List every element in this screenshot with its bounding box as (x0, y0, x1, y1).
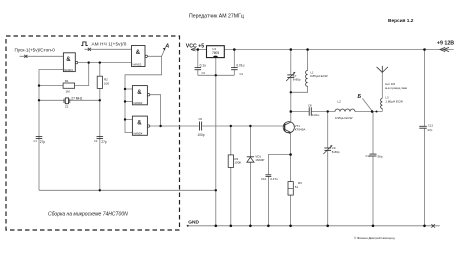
wire: VD1 vertical (249, 126, 251, 157)
capacitor C10 emitter bypass (261, 175, 278, 181)
svg-text:27p: 27p (101, 140, 107, 144)
resistor R2 (97, 76, 109, 88)
inductor L2 (335, 109, 355, 111)
svg-text:NAND2: NAND2 (133, 62, 142, 66)
svg-text:1N60P: 1N60P (255, 158, 264, 162)
svg-text:0.47u: 0.47u (270, 177, 278, 181)
wire: emitter vertical (290, 133, 292, 182)
svg-text:C2: C2 (94, 139, 98, 143)
node: antenna feed at L3 (376, 111, 378, 113)
svg-text:47p: 47p (427, 128, 432, 132)
svg-text:0.01u: 0.01u (312, 113, 320, 117)
node: box ground joins 7805 gnd (215, 189, 217, 191)
wire: B link diagonal (362, 98, 372, 111)
wire: emitter bypass branch (268, 155, 290, 175)
terminal X: start input (24, 55, 27, 58)
resistor R4 (228, 155, 241, 168)
wire: C9 trimmer vertical (327, 112, 329, 148)
wire: crystal line (39, 99, 65, 101)
svg-text:51: 51 (295, 185, 299, 189)
svg-text:0.1u: 0.1u (200, 64, 206, 68)
node: rail at C12 (423, 48, 426, 51)
svg-text:8-80p: 8-80p (293, 78, 301, 82)
inductor L3 (381, 98, 383, 108)
wire: top rail (192, 49, 207, 51)
capacitor C12 47p (419, 123, 433, 132)
svg-text:56p: 56p (378, 155, 383, 159)
node: rail at L1 (306, 48, 309, 51)
capacitor C11 56p (366, 154, 383, 159)
node: gnd rail at 7805 (215, 225, 218, 228)
svg-text:27 MHz: 27 MHz (71, 96, 82, 100)
wire: 7805 ground vertical (215, 58, 217, 226)
wire: L2 to antenna node (355, 111, 382, 113)
wire: L1 vertical (307, 50, 309, 71)
svg-text:100: 100 (104, 82, 109, 86)
wire: bypass cap left vertical (197, 50, 199, 68)
capacitor C9 trimmer (323, 145, 339, 154)
svg-text:м-в провод 1мм: м-в провод 1мм (385, 86, 407, 90)
svg-text:&: & (136, 50, 141, 56)
wire: R2 vertical (99, 63, 101, 77)
node: crystal right (99, 99, 101, 101)
capacitor C2 27p (94, 137, 107, 144)
svg-text:© Фионин Дмитрий Новгород: © Фионин Дмитрий Новгород (354, 236, 395, 240)
capacitor C8 (308, 104, 320, 117)
svg-text:0.85µH ECW: 0.85µH ECW (310, 74, 328, 78)
nand gate NAND3 (132, 86, 149, 105)
capacitor C4 0.01u (231, 64, 245, 76)
svg-text:Z1: Z1 (65, 105, 69, 109)
svg-text:8-80p: 8-80p (332, 150, 340, 154)
node: feedback at R1 left (38, 84, 40, 86)
svg-text:100p: 100p (197, 133, 204, 137)
node: collector at C8 (290, 110, 293, 113)
nand gate NAND2 (132, 46, 148, 67)
node: NAND1 out at R2 (99, 61, 101, 63)
node: bypass ground (215, 74, 217, 76)
svg-text:&: & (137, 121, 142, 127)
svg-text:C8: C8 (308, 104, 312, 108)
transistor VT1 (283, 122, 305, 134)
resistor R3 (288, 181, 302, 195)
nand gate NAND1 (63, 53, 77, 72)
svg-text:C10: C10 (261, 177, 267, 181)
node: antenna feed B (371, 110, 374, 113)
terminal X: AM input (88, 48, 91, 51)
node: buffer input 2 (124, 100, 126, 102)
svg-text:GND: GND (188, 219, 199, 225)
node: crystal left (38, 99, 40, 101)
node: base at R4 (230, 125, 232, 127)
svg-text:0.01u: 0.01u (236, 64, 244, 68)
wire: NAND1 output line (78, 62, 131, 64)
svg-text:&: & (137, 90, 142, 96)
node: gnd rail at VD1 (249, 225, 252, 228)
wire: L3 vertical (381, 109, 383, 112)
wire: NAND1 lower input feedback (39, 70, 63, 191)
node: C9 tap (327, 110, 329, 112)
svg-text:АМ НЧ 1(+5v)/0: АМ НЧ 1(+5v)/0 (92, 42, 127, 47)
wire: bypass bottom (198, 74, 235, 76)
svg-text:Пуск-1(+5v)/Стоп-0: Пуск-1(+5v)/Стоп-0 (15, 48, 56, 53)
wire: NAND2 output to A and to buffers (125, 56, 162, 132)
node: buffer input 3 (124, 118, 126, 120)
resistor R1 (63, 79, 75, 93)
inductor L1 (306, 71, 308, 87)
node: tank bottom (290, 91, 292, 93)
wire: R3 to ground (290, 195, 292, 226)
wire: buffer input stubs (125, 88, 132, 90)
wire: C7 trimmer vertical (290, 50, 292, 75)
wire: C8 line (291, 111, 309, 113)
node: NAND1 out at R1 (88, 61, 90, 63)
svg-text:+9 12В: +9 12В (437, 41, 454, 47)
svg-text:L2: L2 (338, 99, 342, 103)
svg-text:100K: 100K (234, 161, 241, 165)
pulse symbol (81, 42, 87, 46)
node: gnd rail at C11 (372, 225, 375, 228)
wire: A diagonal (162, 49, 165, 57)
capacitor C6 100p coupling (197, 117, 204, 137)
node: +5V at C3 (197, 48, 200, 51)
svg-text:C4: C4 (240, 72, 244, 76)
svg-text:R3: R3 (298, 181, 302, 185)
svg-text:1.80µH ECW: 1.80µH ECW (385, 100, 403, 104)
node: base at VD1 (249, 125, 251, 127)
regulator U1 7805 (207, 46, 225, 58)
wire: buffers output to base line (150, 125, 199, 127)
node: gnd rail at C10 (267, 225, 270, 228)
svg-text:Версия 1.2: Версия 1.2 (388, 18, 414, 24)
svg-text:Сборка на микросхеме 74HCT00N: Сборка на микросхеме 74HCT00N (48, 212, 128, 218)
svg-text:NAND4: NAND4 (134, 131, 143, 135)
crystal Z1 (64, 96, 83, 108)
node: buffer input 1 (124, 88, 126, 90)
node: rail at C7 (290, 48, 293, 51)
capacitor C1 27p (34, 137, 46, 144)
svg-text:C3: C3 (202, 71, 206, 75)
node: buffer outputs joined (159, 125, 161, 127)
wire: R4 vertical (230, 126, 232, 155)
wire: NAND3 output down to NAND4 output (150, 95, 161, 126)
svg-text:C12: C12 (428, 123, 434, 127)
svg-text:C1: C1 (34, 139, 38, 143)
svg-text:A: A (164, 44, 169, 50)
wire: bypass cap right vertical (233, 50, 235, 68)
svg-text:7805: 7805 (212, 51, 219, 55)
wire: R1 feedback line (39, 85, 63, 87)
wire: box ground line (39, 189, 216, 191)
node: gnd rail at C12 (423, 225, 426, 228)
wire: C2 vertical to ground (99, 100, 101, 190)
svg-text:27p: 27p (40, 140, 46, 144)
capacitor C3 0.1u (195, 64, 206, 75)
svg-text:C6: C6 (199, 117, 203, 121)
svg-text:NAND3: NAND3 (134, 101, 143, 105)
svg-text:Передатчик АМ 27МГц: Передатчик АМ 27МГц (189, 14, 244, 20)
wire: start input (20, 55, 64, 57)
node: box ground at C2 (99, 189, 101, 191)
wire: AM input (85, 48, 132, 50)
svg-text:Б: Б (358, 94, 362, 100)
node: gnd rail at R4 (230, 225, 233, 228)
wire: collector vertical (290, 92, 292, 122)
node: emitter (289, 153, 292, 156)
ground rail end X terminal (431, 224, 435, 228)
svg-text:R1: R1 (65, 79, 69, 83)
svg-text:NAND1: NAND1 (64, 68, 73, 72)
node A arrow (163, 44, 170, 51)
svg-text:C11: C11 (366, 154, 371, 158)
svg-text:КТ645А: КТ645А (295, 128, 306, 132)
wire: ground rail (188, 225, 440, 227)
node: rail at C4 (233, 48, 236, 51)
svg-text:0.95µH ECW: 0.95µH ECW (335, 116, 353, 120)
svg-text:&: & (66, 57, 71, 63)
nand gate NAND4 (132, 116, 149, 135)
wire: C11 vertical (372, 112, 374, 154)
node: gnd rail at C9 (326, 225, 329, 228)
logic assembly dashed box (6, 36, 180, 230)
wire: C12 right vertical (424, 50, 426, 127)
capacitor C7 trimmer (286, 72, 301, 82)
antenna (377, 66, 388, 73)
node: gnd rail at R3 (289, 225, 292, 228)
diode VD1 (247, 154, 265, 162)
wire: base line after C6 (202, 125, 284, 127)
svg-text:1M: 1M (66, 89, 71, 93)
